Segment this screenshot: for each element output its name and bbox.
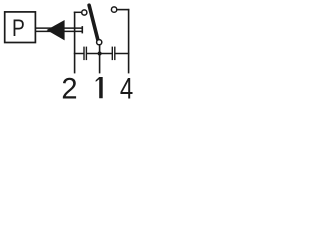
svg-text:4: 4 [120, 71, 133, 102]
plug bar pair right b [114, 47, 116, 61]
wire terminal 1 vertical [99, 45, 101, 74]
plug bar pair right a [111, 47, 113, 61]
wire contact 4 horizontal [117, 9, 129, 11]
svg-text:P: P [12, 14, 25, 42]
pilot rod end bar [81, 26, 83, 33]
rail segment right [115, 53, 130, 55]
svg-text:2: 2 [61, 72, 77, 102]
rail segment left [74, 53, 84, 55]
plug bar pair left b [85, 47, 87, 61]
rail segment middle [86, 53, 112, 55]
switch lever [89, 5, 98, 40]
terminal label 2 [61, 72, 77, 105]
wire terminal 4 vertical [128, 9, 130, 74]
pilot double line upper [35, 27, 82, 29]
terminal label 1 [96, 77, 103, 98]
label P [12, 14, 25, 42]
pressure sensor box B1 [5, 12, 36, 43]
junction node 1 [98, 52, 102, 56]
pilot arrowhead triangle [47, 20, 65, 40]
pilot double line lower [35, 30, 82, 32]
terminal label 4 [120, 71, 133, 105]
pivot circle (terminal 1) [97, 40, 102, 45]
contact circle NO (terminal 4) [111, 7, 116, 12]
wire terminal 2 vertical [74, 12, 76, 74]
wire contact 2 horizontal [74, 11, 82, 13]
plug bar pair left a [83, 47, 85, 61]
contact circle NC (terminal 2) [82, 10, 87, 15]
